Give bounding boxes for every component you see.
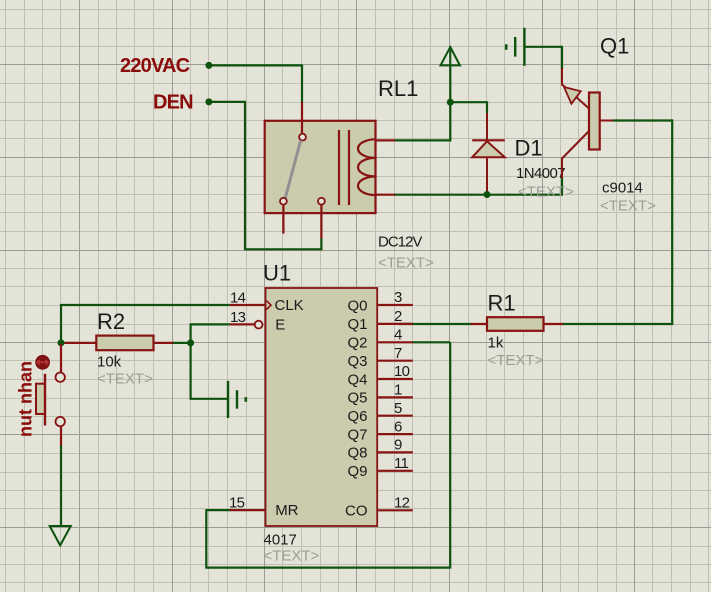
svg-text:D1: D1 <box>515 136 543 161</box>
svg-text:Q8: Q8 <box>347 445 367 462</box>
wire E vertical <box>190 323 192 398</box>
relay switch lever <box>285 140 301 198</box>
relay NC pin stub <box>282 205 284 234</box>
svg-text:DEN: DEN <box>153 92 193 114</box>
svg-text:1k: 1k <box>488 335 504 352</box>
wire loop rise <box>449 342 451 568</box>
wire DEN horizontal <box>209 101 245 103</box>
wire Q1 emitter drop <box>561 46 563 69</box>
wire DEN vertical <box>244 101 246 249</box>
wire Q1 base <box>612 119 672 121</box>
clock input chevron <box>267 301 272 310</box>
svg-text:CO: CO <box>345 503 368 520</box>
wire to R1 right <box>562 323 673 325</box>
relay RL1 body <box>265 121 376 213</box>
button top lead <box>60 344 62 374</box>
svg-text:MR: MR <box>275 502 298 519</box>
svg-text:5: 5 <box>394 400 402 417</box>
wire to cell <box>190 398 228 400</box>
wire D1 cathode drop <box>486 101 488 113</box>
pin 2 Q1 lead <box>377 323 413 325</box>
svg-text:<TEXT>: <TEXT> <box>600 198 656 215</box>
pin 11 Q9 lead <box>377 470 413 472</box>
svg-text:<TEXT>: <TEXT> <box>264 548 320 565</box>
svg-text:14: 14 <box>230 290 246 307</box>
svg-text:<TEXT>: <TEXT> <box>488 352 544 369</box>
relay coil windings <box>358 139 376 195</box>
wire DEN rise <box>320 238 322 250</box>
wire coil bottom rail <box>394 194 562 196</box>
battery cell top <box>506 28 524 66</box>
svg-text:Q5: Q5 <box>347 390 367 407</box>
svg-text:13: 13 <box>230 309 246 326</box>
pin 13 E lead <box>230 323 255 325</box>
battery cell lower-left <box>228 381 246 418</box>
svg-text:10k: 10k <box>97 354 122 371</box>
relay coil plates <box>339 130 349 205</box>
svg-text:U1: U1 <box>263 261 291 286</box>
junction D1 anode <box>484 191 491 198</box>
wire to Q2 pin <box>412 341 450 343</box>
wire to D1 cathode <box>450 101 487 103</box>
power terminal arrow <box>441 47 460 65</box>
svg-text:Q6: Q6 <box>347 408 367 425</box>
svg-text:R2: R2 <box>97 309 125 334</box>
wire to coil top <box>449 101 451 140</box>
wire coil top <box>394 139 451 141</box>
svg-text:7: 7 <box>394 345 402 362</box>
relay common pin <box>299 134 306 141</box>
svg-text:c9014: c9014 <box>602 180 643 197</box>
wire CLK drop <box>60 304 62 343</box>
resistor R1 <box>487 317 544 331</box>
svg-text:Q3: Q3 <box>347 353 367 370</box>
svg-text:Q0: Q0 <box>347 297 367 314</box>
ground <box>50 526 71 545</box>
pin 6 Q7 lead <box>377 433 413 435</box>
svg-text:12: 12 <box>394 495 410 512</box>
resistor R1 right lead <box>543 323 563 325</box>
resistor R2 <box>96 336 153 351</box>
wire MR <box>206 509 230 511</box>
pin 1 Q5 lead <box>377 396 413 398</box>
relay NO pin <box>318 198 325 205</box>
resistor R2 left lead <box>62 342 97 344</box>
svg-text:4017: 4017 <box>264 532 297 549</box>
wire power arrow drop <box>449 65 451 103</box>
wire DEN bottom <box>244 248 321 250</box>
svg-text:10: 10 <box>394 363 410 380</box>
svg-text:DC12V: DC12V <box>378 234 422 251</box>
resistor R2 right lead <box>152 342 174 344</box>
pin 12 CO lead <box>377 509 413 511</box>
E inversion bubble <box>255 321 263 329</box>
relay coil bottom lead <box>376 194 396 196</box>
relay NO pin lead <box>320 205 322 239</box>
svg-text:Q1: Q1 <box>347 316 367 333</box>
svg-text:E: E <box>275 317 285 334</box>
pin 10 Q4 lead <box>377 378 413 380</box>
resistor R1 left lead <box>471 323 488 325</box>
pin 4 Q2 lead <box>377 341 413 343</box>
svg-text:1: 1 <box>394 382 402 399</box>
svg-text:220VAC: 220VAC <box>120 55 190 77</box>
svg-text:Q4: Q4 <box>347 371 367 388</box>
button plunger shaft <box>44 374 46 426</box>
svg-text:6: 6 <box>394 418 402 435</box>
wire Q1 collector drop <box>561 177 563 196</box>
button body <box>36 384 45 414</box>
wire R2 to junction <box>173 342 192 344</box>
wire battery to Q1 <box>524 46 562 48</box>
IC U1 body <box>266 288 378 526</box>
relay NC pin <box>280 198 287 205</box>
junction power node <box>447 99 454 106</box>
svg-text:CLK: CLK <box>275 297 304 314</box>
svg-text:9: 9 <box>394 437 402 454</box>
svg-text:2: 2 <box>394 308 402 325</box>
svg-text:<TEXT>: <TEXT> <box>378 255 434 272</box>
diode D1 <box>472 113 505 196</box>
svg-text:11: 11 <box>394 455 409 472</box>
junction R2 right <box>187 339 194 346</box>
pin 7 Q3 lead <box>377 360 413 362</box>
wire E horizontal <box>191 323 230 325</box>
svg-text:Q2: Q2 <box>347 335 367 352</box>
button top contact <box>56 373 65 382</box>
wire bottom loop <box>205 566 450 568</box>
button bottom lead <box>60 426 62 446</box>
button actuator <box>35 355 50 370</box>
junction R2 left <box>58 339 65 346</box>
svg-text:<TEXT>: <TEXT> <box>97 371 153 388</box>
wire right vertical <box>671 119 673 324</box>
wire MR drop <box>205 509 207 567</box>
svg-text:15: 15 <box>229 495 245 512</box>
svg-text:RL1: RL1 <box>378 76 418 101</box>
wire 220VAC drop <box>301 64 303 102</box>
svg-text:Q9: Q9 <box>347 463 367 480</box>
svg-text:Q7: Q7 <box>347 426 367 443</box>
svg-text:4: 4 <box>394 327 402 344</box>
pin 15 MR lead <box>230 509 266 511</box>
svg-text:R1: R1 <box>488 291 516 316</box>
transistor Q1 <box>562 68 613 178</box>
node 220VAC terminal <box>205 62 212 69</box>
wire R1 left to Q1 pin <box>399 323 472 325</box>
wire 220VAC horizontal <box>209 64 302 66</box>
svg-text:nut nhan: nut nhan <box>16 361 36 437</box>
pin 14 CLK lead <box>230 304 266 306</box>
wire button to ground <box>60 445 62 527</box>
relay coil top lead <box>376 139 396 141</box>
pin 5 Q6 lead <box>377 415 413 417</box>
pin 9 Q8 lead <box>377 451 413 453</box>
svg-text:<TEXT>: <TEXT> <box>518 184 574 201</box>
relay common pin lead <box>301 102 303 134</box>
svg-text:Q1: Q1 <box>600 34 629 59</box>
node DEN terminal <box>205 98 212 105</box>
wire CLK <box>61 304 230 306</box>
pin 3 Q0 lead <box>377 304 413 306</box>
svg-text:1N4007: 1N4007 <box>516 165 565 182</box>
button bottom contact <box>56 417 65 426</box>
svg-text:3: 3 <box>394 289 402 306</box>
